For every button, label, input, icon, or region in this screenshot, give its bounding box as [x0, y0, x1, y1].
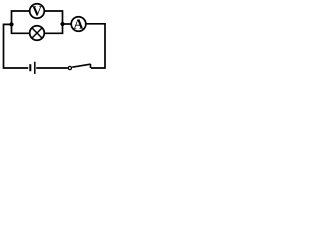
node left junction — [9, 22, 13, 26]
voltmeter label V — [32, 6, 42, 15]
voltmeter V — [30, 4, 45, 19]
battery negative plate short thick — [29, 64, 31, 71]
ammeter label A — [74, 19, 84, 28]
lamp cross stroke 1 — [32, 28, 42, 38]
lamp cross stroke 2 — [32, 28, 42, 38]
node right junction — [60, 22, 64, 26]
wire right junction to ammeter — [63, 23, 72, 25]
ammeter A — [71, 17, 86, 32]
wire lamp to right junction — [45, 24, 63, 33]
wire left side down to battery — [4, 24, 29, 68]
lamp L1 — [30, 26, 45, 41]
wire top-left branch to voltmeter — [12, 11, 30, 24]
wire voltmeter to right junction — [45, 11, 63, 24]
battery positive plate long thin — [34, 62, 36, 74]
switch terminal drop — [90, 64, 92, 68]
wire left junction to lamp — [12, 24, 30, 33]
switch pivot circle — [68, 66, 71, 69]
wire battery to switch — [36, 67, 68, 69]
wire ammeter to right side down to switch — [86, 24, 105, 68]
switch lever — [72, 64, 90, 67]
